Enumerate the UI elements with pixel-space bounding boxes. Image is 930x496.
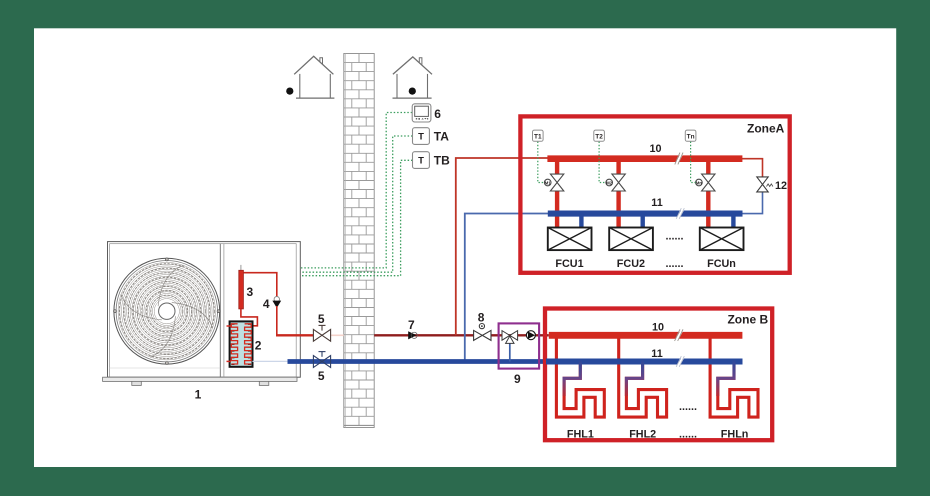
brick wall (344, 54, 374, 428)
svg-text:FHL1: FHL1 (567, 429, 594, 441)
water line to outside (252, 360, 288, 362)
floor heating loop FHL1 (556, 337, 604, 417)
svg-text:10: 10 (652, 322, 664, 334)
svg-text:Zone B: Zone B (727, 312, 768, 326)
red pipe faint behind valve to wall (331, 334, 344, 336)
svg-text:......: ...... (666, 231, 684, 243)
svg-text:8: 8 (478, 311, 485, 325)
return header pipe 11 (548, 211, 743, 217)
walls (299, 74, 301, 98)
bypass valve 12 (757, 177, 768, 192)
heat exchanger 2 (227, 321, 253, 366)
motorized valve M2 (606, 174, 625, 191)
heat pump unit 1 (103, 242, 301, 402)
pipe 10 break (676, 154, 684, 163)
blue riser to zone A (465, 214, 548, 362)
thermostat wire Tn (691, 142, 696, 183)
pump (526, 331, 535, 340)
house left (286, 56, 334, 98)
svg-text:10: 10 (649, 143, 661, 155)
svg-text:9: 9 (514, 372, 521, 386)
divider (219, 244, 221, 378)
shutoff valve 5 blue (313, 352, 330, 368)
unit cabinet (108, 242, 301, 378)
chimney (419, 58, 422, 65)
floor heating loop FHLn (710, 337, 758, 417)
ground line (296, 97, 334, 99)
fan grille (114, 258, 221, 365)
return header pipe 11 (546, 358, 743, 364)
house right (393, 57, 433, 98)
svg-text:T2: T2 (595, 133, 603, 140)
pipes (276, 113, 549, 387)
fan coil unit FCUn (700, 228, 744, 251)
motorized valve M1 (544, 174, 563, 191)
svg-text:11: 11 (651, 348, 662, 360)
red supply pipe after wall (dark) (374, 334, 474, 336)
door dot (286, 88, 293, 95)
zone A boundary box (520, 116, 789, 272)
green control wires (301, 113, 413, 276)
wire TB to unit (301, 160, 413, 275)
thermostat wire T2 (599, 142, 606, 183)
flow arrow 7 (408, 331, 416, 339)
wire TA to unit (301, 136, 413, 272)
controller 6 (412, 104, 431, 122)
pipe 10 break (675, 331, 683, 340)
FCU1 red drop (555, 159, 559, 175)
fan coil unit FCU2 (609, 228, 653, 251)
FCU1 blue drop (579, 214, 583, 229)
fan coil unit FCU1 (548, 228, 592, 251)
foot left (132, 381, 142, 385)
thermostat T2 (594, 130, 605, 141)
FCUn blue drop (731, 214, 735, 229)
roof (294, 56, 333, 74)
svg-text:6: 6 (434, 107, 441, 121)
bypass valve 12 blue link (742, 192, 763, 214)
zone B boundary box (545, 309, 772, 441)
svg-text:5: 5 (318, 312, 325, 326)
3-way mixing valve (509, 341, 511, 362)
red supply pipe unit to valve5 (276, 334, 313, 336)
svg-text:TB: TB (434, 153, 450, 167)
svg-text:12: 12 (775, 180, 787, 192)
refrigerant pipe from compressor top (243, 273, 276, 300)
wire controller 6 to unit (301, 113, 412, 268)
svg-text:TA: TA (434, 129, 449, 143)
red riser to zone A (456, 158, 548, 335)
ground line (393, 97, 432, 99)
svg-text:5: 5 (318, 369, 325, 383)
base plate (103, 377, 297, 381)
svg-text:Mn: Mn (696, 180, 702, 185)
thermostat TA (413, 128, 430, 145)
svg-text:T1: T1 (534, 133, 542, 140)
svg-text:FCU2: FCU2 (617, 258, 645, 270)
svg-text:4: 4 (263, 297, 270, 311)
check valve 4 (274, 297, 279, 302)
refrigerant pipe from valve down (276, 306, 278, 335)
svg-text:FHLn: FHLn (721, 429, 749, 441)
svg-text:Tn: Tn (687, 133, 695, 140)
FCU2 red drop (616, 159, 620, 175)
floor heating loop FHL2 (619, 337, 667, 417)
pipe 11 break (677, 358, 685, 366)
svg-text:11: 11 (651, 197, 662, 209)
svg-text:FCUn: FCUn (707, 258, 736, 270)
blue return main pipe (288, 359, 547, 364)
compressor 3 (240, 265, 242, 270)
supply header pipe 10 (549, 332, 743, 339)
thermostat T1 (533, 130, 544, 141)
zone A (520, 116, 789, 272)
svg-text:......: ...... (679, 401, 697, 413)
supply header pipe 10 (547, 155, 742, 162)
roof (393, 57, 432, 74)
pipe from compressor bottom to heat exchanger (241, 309, 258, 326)
svg-text:T: T (418, 132, 424, 143)
thermostat Tn (685, 130, 696, 141)
svg-text:FCU1: FCU1 (555, 258, 583, 270)
svg-text:3: 3 (247, 285, 254, 299)
svg-text:7: 7 (408, 318, 415, 332)
FHLn return gradient (718, 360, 734, 396)
svg-text:M2: M2 (606, 180, 612, 185)
svg-text:1: 1 (195, 388, 202, 402)
bypass valve 12 red link (742, 159, 763, 178)
shutoff valve 5 red (313, 325, 330, 341)
svg-text:......: ...... (666, 258, 684, 270)
motorized valve Mn (696, 174, 715, 191)
thermostat TB (413, 152, 430, 169)
motorized valve 8 (474, 324, 491, 341)
svg-text:FHL2: FHL2 (629, 429, 656, 441)
svg-text:......: ...... (679, 429, 697, 441)
svg-text:T: T (418, 156, 424, 167)
FCUn red drop (706, 159, 710, 175)
svg-text:ZoneA: ZoneA (747, 121, 785, 135)
controls (412, 104, 450, 169)
svg-text:2: 2 (255, 339, 262, 353)
indoor dot (409, 88, 416, 95)
FHL2 return gradient (626, 360, 642, 396)
foot right (259, 381, 269, 385)
pipe 11 break (677, 210, 685, 218)
FCU2 blue drop (641, 214, 645, 229)
chimney (320, 58, 323, 65)
svg-text:M1: M1 (545, 180, 551, 185)
mixing station box 9 (499, 323, 539, 368)
walls (396, 74, 398, 98)
thermostat wire T1 (538, 142, 545, 183)
FHL1 return gradient (564, 360, 580, 396)
red pipe valve8 to zoneB (491, 334, 549, 336)
